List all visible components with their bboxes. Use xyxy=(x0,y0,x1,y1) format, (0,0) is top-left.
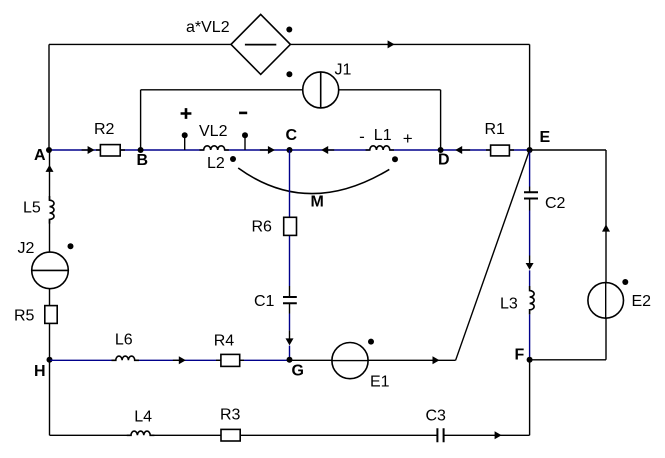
svg-text:R2: R2 xyxy=(94,121,115,138)
wire B up xyxy=(140,90,142,150)
label R4 xyxy=(214,332,235,349)
svg-text:D: D xyxy=(438,152,450,169)
bottom wire xyxy=(50,434,530,436)
inductor L2 xyxy=(200,146,229,150)
main rail A-E (blue) xyxy=(49,149,530,151)
arrow down above G xyxy=(286,330,294,345)
plus sign L1 xyxy=(403,129,413,148)
winding dot L1 xyxy=(392,156,398,162)
dot of E1 xyxy=(368,339,374,345)
svg-text:F: F xyxy=(515,347,525,364)
plus sign VL2 xyxy=(181,108,192,119)
node H dot xyxy=(47,357,53,363)
inductor L1 xyxy=(366,146,394,150)
dependent source a*VL2 xyxy=(231,14,290,74)
svg-text:M: M xyxy=(311,194,324,211)
label R2 xyxy=(94,121,115,138)
svg-text:G: G xyxy=(292,363,304,380)
probe stem plus xyxy=(182,132,188,150)
label A xyxy=(34,147,46,164)
inductor L6 xyxy=(112,356,140,360)
wire A up to top-left corner xyxy=(48,44,50,150)
svg-text:H: H xyxy=(34,363,46,380)
source E1 xyxy=(332,343,368,379)
inductor L5 xyxy=(50,196,55,224)
minus sign VL2 xyxy=(239,112,247,115)
label C1 xyxy=(254,293,275,310)
wire down to D xyxy=(440,90,442,150)
label L6 xyxy=(115,332,133,349)
C column blue wire xyxy=(289,150,291,360)
label G xyxy=(292,363,304,380)
label E1 xyxy=(370,374,390,391)
capacitor C2 xyxy=(524,187,538,211)
arrow near D pointing left xyxy=(455,146,470,154)
label F xyxy=(515,347,525,364)
label L1 xyxy=(374,127,392,144)
svg-text:B: B xyxy=(137,152,149,169)
wire E column top down to node E xyxy=(529,44,531,150)
wire E right to corner xyxy=(530,149,606,151)
label H xyxy=(34,363,46,380)
probe stem minus xyxy=(242,132,248,150)
capacitor C3 xyxy=(437,428,443,442)
current source J1 xyxy=(303,72,339,108)
node D dot xyxy=(438,147,444,153)
H rail blue to G xyxy=(50,359,290,361)
svg-text:J2: J2 xyxy=(18,240,35,257)
inductor L3 xyxy=(530,286,535,314)
wire bottom right up to F xyxy=(529,360,531,436)
svg-text:C2: C2 xyxy=(545,195,566,212)
resistor R3 xyxy=(221,429,240,441)
arrow on rail before C xyxy=(260,146,275,154)
svg-text:L1: L1 xyxy=(374,127,392,144)
svg-text:R3: R3 xyxy=(220,407,241,424)
resistor R4 xyxy=(216,354,244,366)
dot of dependent source xyxy=(286,27,292,33)
dot of J2 xyxy=(68,243,74,249)
resistor R6 xyxy=(284,217,297,235)
svg-text:L4: L4 xyxy=(134,409,152,426)
label L3 xyxy=(500,296,518,313)
node E dot xyxy=(527,147,533,153)
svg-text:+: + xyxy=(403,129,413,148)
wire H down to bottom xyxy=(49,360,51,436)
label R6 xyxy=(252,219,273,236)
wire E1 to diagonal start xyxy=(368,359,456,361)
svg-text:L6: L6 xyxy=(115,332,133,349)
label a*VL2 xyxy=(186,19,230,36)
arrow down on E column xyxy=(526,256,534,270)
svg-text:C: C xyxy=(286,127,298,144)
arrow up on right wire xyxy=(602,224,610,231)
label L4 xyxy=(134,409,152,426)
arrow on top wire xyxy=(388,40,395,48)
node C dot xyxy=(287,147,293,153)
E column blue wire with C2 and L3 xyxy=(529,150,531,360)
label R1 xyxy=(485,121,506,138)
capacitor C1 xyxy=(283,286,297,314)
arrow on rail A to R2 xyxy=(82,146,95,154)
arrow on bottom wire xyxy=(495,431,502,439)
svg-text:VL2: VL2 xyxy=(199,123,228,140)
label C3 xyxy=(426,408,447,425)
svg-text:R1: R1 xyxy=(485,121,506,138)
arrow right of C pointing left xyxy=(321,146,334,154)
wire right side down through E2 xyxy=(605,150,607,360)
current source J2 xyxy=(32,252,69,289)
label E2 xyxy=(632,293,652,310)
label B xyxy=(137,152,149,169)
wire top left (corner to dependent source) xyxy=(49,43,231,45)
resistor R2 xyxy=(96,145,125,156)
label C2 xyxy=(545,195,566,212)
label J2 xyxy=(18,240,35,257)
source E2 xyxy=(588,283,624,319)
svg-text:E1: E1 xyxy=(370,374,390,391)
resistor R1 xyxy=(486,145,514,156)
svg-text:C3: C3 xyxy=(426,408,447,425)
svg-text:J1: J1 xyxy=(335,62,352,79)
svg-text:-: - xyxy=(359,127,365,146)
wire F to right corner xyxy=(530,359,606,361)
svg-text:E: E xyxy=(540,129,551,146)
svg-text:L3: L3 xyxy=(500,296,518,313)
dot of J1 xyxy=(286,71,292,77)
arrow up below A xyxy=(46,165,54,172)
svg-text:L2: L2 xyxy=(207,155,225,172)
node G dot xyxy=(287,357,293,363)
inductor L4 xyxy=(127,431,155,435)
winding dot L2 xyxy=(230,156,236,162)
svg-text:R6: R6 xyxy=(252,219,273,236)
wire top right (dependent source to E column) xyxy=(290,43,529,45)
label J1 xyxy=(335,62,352,79)
label L2 xyxy=(207,155,225,172)
node A dot xyxy=(46,147,52,153)
arrow after E1 xyxy=(433,356,440,364)
node B dot xyxy=(138,147,144,153)
svg-text:R5: R5 xyxy=(14,308,35,325)
svg-text:L5: L5 xyxy=(23,199,41,216)
node F dot xyxy=(527,357,533,363)
svg-text:R4: R4 xyxy=(214,332,235,349)
label L5 xyxy=(23,199,41,216)
left column wire A to H xyxy=(49,150,51,360)
diagonal wire to E xyxy=(456,150,530,360)
wire G to E1 xyxy=(290,359,332,361)
label M xyxy=(311,194,324,211)
svg-text:C1: C1 xyxy=(254,293,275,310)
resistor R5 xyxy=(45,306,57,324)
svg-text:A: A xyxy=(34,147,46,164)
label E xyxy=(540,129,551,146)
label C xyxy=(286,127,298,144)
wire J1 to corner above D xyxy=(321,89,441,91)
svg-text:a*VL2: a*VL2 xyxy=(186,19,230,36)
mutual coupling arc M xyxy=(238,168,389,194)
minus sign L1 xyxy=(359,127,365,146)
dot of E2 xyxy=(622,279,628,285)
label R3 xyxy=(220,407,241,424)
arrow on H rail xyxy=(173,356,186,364)
label R5 xyxy=(14,308,35,325)
label D xyxy=(438,152,450,169)
svg-text:E2: E2 xyxy=(632,293,652,310)
label VL2 xyxy=(199,123,228,140)
wire B row to J1 xyxy=(141,89,321,91)
